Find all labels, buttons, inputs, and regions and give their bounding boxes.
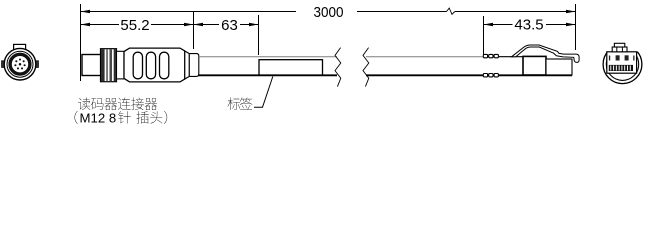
arrow 55.2 right [184, 23, 194, 26]
erase circle tops [603, 44, 642, 52]
cable segment 2 top [366, 56, 484, 58]
text: label (biao qian) [227, 98, 240, 110]
RJ45 latch lever [512, 45, 580, 62]
M12 side: cable boot [189, 54, 199, 77]
RJ45 face: outer circle [603, 45, 642, 84]
M12 face view: dark insert ring [10, 54, 30, 74]
svg-text:55.2: 55.2 [120, 17, 149, 34]
RJ45 face: latch tab lower [612, 47, 627, 52]
svg-text:43.5: 43.5 [514, 17, 543, 34]
label leader line [254, 77, 273, 108]
M12 side: rear taper [185, 51, 190, 79]
M12 face view: outer body circle [4, 48, 36, 80]
arrow 43.5 left [484, 23, 494, 26]
svg-text:3000: 3000 [314, 4, 344, 21]
svg-text:63: 63 [221, 17, 238, 34]
text: reader connector line 1 [78, 98, 90, 110]
cable segment 1 bottom [199, 74, 337, 76]
dimension 3000 line [81, 11, 297, 13]
extension line right (x=575.5) [575, 4, 577, 50]
M12 face view: top key tab [14, 44, 26, 50]
M12 side: grip slot 3 [160, 52, 169, 79]
extension line left (x=80.5) [80, 4, 82, 81]
extension line at 63 right / label start [258, 15, 260, 55]
arrow 55.2 left [81, 23, 91, 26]
RJ45 face: jack rectangle [607, 52, 637, 73]
arrow 3000 left [81, 10, 91, 13]
cable segment 2 bottom [366, 74, 484, 76]
M12 side: waist ring [117, 51, 125, 79]
M12 face view: coupling ring circle [7, 51, 33, 77]
cable break squiggle right [363, 48, 369, 87]
dimension 55.2 [81, 24, 120, 26]
M12 side: grip slot 2 [146, 52, 155, 79]
RJ45 face: cavity marks [616, 55, 620, 60]
arrow 3000 right [566, 10, 576, 13]
extension line at 43.5 left [483, 16, 485, 57]
RJ45 face: latch tab upper [614, 43, 624, 47]
extension line at 55.2/63 boundary [193, 11, 195, 49]
3000 line break squiggle [447, 8, 455, 14]
RJ45 face: contact pin band [609, 65, 633, 71]
RJ45 plug body [523, 56, 546, 75]
dimension 63 [194, 24, 220, 26]
arrow 63 right [249, 23, 259, 26]
M12 face view: side lock tabs [2, 61, 5, 68]
RJ45 boot ribs top [483, 54, 487, 57]
cable break squiggle left [335, 48, 341, 87]
RJ45 face: inner circle [606, 48, 638, 80]
svg-text:M12 8: M12 8 [80, 111, 117, 126]
arrow 43.5 right [566, 23, 576, 26]
cable segment 1 top [199, 56, 337, 58]
M12 side: knurled coupling ring [101, 49, 117, 82]
M12 face view: 8 pins [14, 58, 25, 69]
RJ45 boot ribs bottom [483, 74, 487, 77]
M12 side: grip slot 1 [133, 52, 142, 79]
RJ45 plug nose [546, 59, 572, 75]
arrow 63 left [194, 23, 204, 26]
dimension 43.5 [484, 24, 513, 26]
M12 side: grip body [124, 48, 185, 82]
text: (M12 8-pin plug) line 2 [75, 111, 78, 124]
M12 side: threaded tip cylinder [82, 55, 101, 76]
label box on cable [259, 60, 323, 75]
